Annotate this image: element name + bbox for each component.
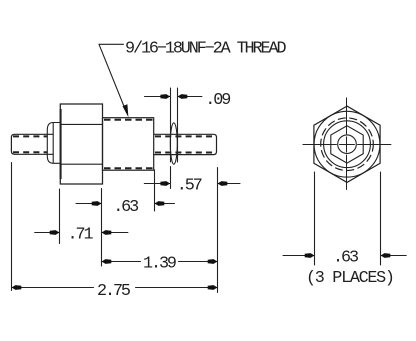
left stud (threaded, left end): [11, 134, 53, 154]
svg-text:1.39: 1.39: [143, 254, 176, 273]
dimension 1.39: [102, 259, 218, 264]
svg-text:2.75: 2.75: [97, 282, 130, 301]
dimension 2.75 (overall): [12, 163, 218, 291]
end view: dashed thread circle: [321, 118, 374, 171]
lock washer on right stud (ellipse): [170, 123, 177, 164]
end view: outer hexagon: [314, 106, 380, 182]
end view: inscribed circle: [314, 111, 380, 177]
dimension .71 (hex width): [35, 189, 128, 244]
dimension .63 (end view, 3 places): [283, 172, 406, 265]
end view: centerline horizontal: [303, 144, 391, 146]
end view: small stud circle: [338, 135, 357, 154]
svg-text:.57: .57: [177, 177, 202, 196]
end view: inner hexagon: [331, 126, 363, 163]
dimension .63 (hex to cylinder end): [76, 170, 175, 266]
end view: circle (body dia): [324, 121, 371, 168]
right stud (threaded, right end): [154, 134, 217, 154]
svg-text:.63: .63: [113, 198, 138, 217]
dimension .57 (washer to stud end): [144, 167, 240, 293]
left collar / washer: [47, 123, 60, 164]
svg-text:9/16−18UNF−2A THREAD: 9/16−18UNF−2A THREAD: [125, 39, 286, 58]
hex body (side view): [60, 104, 102, 184]
dimension .09 (washer width): [145, 88, 202, 162]
svg-text:.63: .63: [333, 249, 358, 268]
threaded cylinder body: [103, 118, 154, 171]
svg-text:.71: .71: [68, 226, 94, 245]
leader line for thread callout: [99, 44, 128, 117]
svg-text:.09: .09: [205, 91, 230, 110]
svg-text:(3 PLACES): (3 PLACES): [306, 269, 394, 288]
end view: centerline vertical: [346, 98, 348, 190]
